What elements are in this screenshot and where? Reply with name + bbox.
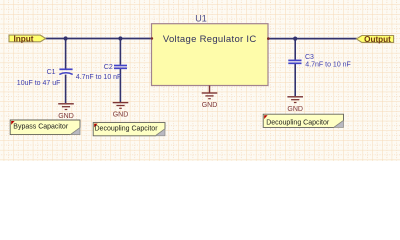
ground symbol under C2 <box>113 103 129 109</box>
op-amp U1 body (Voltage Regulator IC rectangle) <box>152 24 269 86</box>
pin dot right (U1 output pin) <box>267 37 270 40</box>
svg-text:C1: C1 <box>47 69 56 76</box>
port Input <box>9 34 46 43</box>
pin dot left (U1 input pin) <box>151 37 153 39</box>
ground symbol under U1 <box>202 93 218 99</box>
wire: C1 upper lead <box>65 39 67 69</box>
junction: C3 tap <box>293 37 297 41</box>
ground symbol under C1 <box>58 104 74 110</box>
svg-text:GND: GND <box>202 102 218 109</box>
wire: C1 lower lead to GND <box>65 75 67 103</box>
svg-text:4.7nF to 10 nF: 4.7nF to 10 nF <box>305 62 351 69</box>
junction: C2 tap <box>118 36 122 40</box>
capacitor C1 (polarized) <box>59 69 72 74</box>
svg-text:U1: U1 <box>195 13 207 23</box>
wire: C3 upper lead <box>294 39 296 60</box>
svg-text:4.7nF to 10 nF: 4.7nF to 10 nF <box>76 74 122 81</box>
note: Decoupling Capcitor (middle) <box>93 123 165 136</box>
svg-text:Decoupling Capcitor: Decoupling Capcitor <box>95 125 159 132</box>
junction: C1 tap <box>64 36 68 40</box>
svg-text:GND: GND <box>287 106 303 113</box>
svg-text:Output: Output <box>364 35 391 44</box>
capacitor C2 <box>114 66 127 69</box>
ground symbol under C3 <box>287 97 303 103</box>
svg-text:10uF to 47 uF: 10uF to 47 uF <box>17 80 61 87</box>
svg-text:Voltage Regulator IC: Voltage Regulator IC <box>163 34 257 45</box>
wire: C2 lower lead to GND <box>119 69 121 102</box>
svg-text:C3: C3 <box>305 54 314 61</box>
sheet background <box>0 0 400 161</box>
svg-text:Input: Input <box>13 34 33 43</box>
wire: input net (Input port to U1 pin 1) <box>46 38 152 40</box>
svg-text:GND: GND <box>113 112 129 119</box>
svg-text:Bypass Capacitor: Bypass Capacitor <box>13 124 69 131</box>
capacitor C3 <box>288 60 301 63</box>
svg-text:Decoupling Capcitor: Decoupling Capcitor <box>266 120 330 127</box>
svg-text:GND: GND <box>58 113 74 120</box>
wire: C2 upper lead <box>119 39 121 65</box>
wire: C3 lower lead to GND <box>294 64 296 97</box>
svg-text:C2: C2 <box>104 64 113 71</box>
port Output <box>356 35 393 44</box>
note: Bypass Capacitor <box>10 120 80 135</box>
pin: U1 ground pin stem <box>209 86 211 93</box>
note: Decoupling Capcitor (right) <box>263 114 343 127</box>
wire: output net (U1 pin 2 to Output port) <box>268 38 357 40</box>
